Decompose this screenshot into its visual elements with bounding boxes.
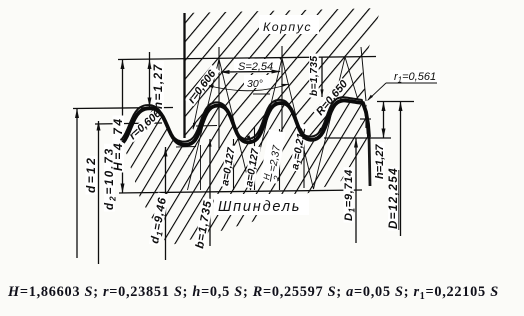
svg-text:d=12: d=12	[84, 156, 98, 193]
svg-text:Шпиндель: Шпиндель	[218, 199, 301, 215]
b=1,735 top label	[309, 54, 320, 98]
centerline of V at x=219	[218, 47, 220, 150]
bottom apex line	[119, 190, 362, 193]
h=1,27 right label	[374, 142, 386, 180]
svg-text:D1=9,714: D1=9,714	[343, 169, 357, 221]
d1=9,46 label	[149, 193, 171, 247]
right root extension line	[324, 137, 391, 139]
h=1,27 left label	[153, 61, 165, 111]
svg-text:S=2,54: S=2,54	[238, 61, 273, 73]
dimension D=12,254 line	[400, 102, 402, 237]
leader for R=0,650	[318, 118, 330, 133]
white patch r=0,606 crest	[126, 107, 164, 143]
dimension H=4,74 line	[122, 60, 124, 194]
d level extension line	[73, 108, 173, 109]
H=4,74 label	[111, 116, 125, 173]
30 degree arc with arrows	[206, 84, 289, 91]
d2=10,73 label	[104, 144, 118, 212]
extension line far	[303, 124, 305, 188]
D label underline	[398, 170, 400, 230]
r1=0,561 label	[390, 70, 440, 83]
left small extension line	[200, 145, 202, 190]
svg-text:30°: 30°	[247, 78, 263, 90]
svg-text:H=4,74: H=4,74	[111, 116, 125, 171]
a=0,127 label second	[243, 145, 262, 189]
extension line a1	[279, 129, 281, 190]
top apex line	[118, 57, 376, 60]
dimension d2=10,73 line	[98, 121, 100, 264]
a=0,127 label first	[219, 144, 238, 188]
dimension d1=9,46 line	[165, 147, 167, 260]
svg-text:H=1,86603 S; r=0,23851 S; h=0,: H=1,86603 S; r=0,23851 S; h=0,5 S; R=0,2…	[7, 284, 499, 302]
dimension b=1,735 bottom line	[209, 139, 211, 246]
dimension d=12 line	[76, 109, 78, 259]
D1=9,714 label	[343, 167, 357, 222]
extension line a first	[233, 139, 235, 190]
thread profile housing line (upper)	[122, 97, 368, 141]
b=1,735 top line	[321, 57, 323, 97]
svg-text:b=1,735: b=1,735	[309, 56, 320, 96]
H/2=2,37 fraction label	[260, 130, 290, 185]
housing hatched section (Корпус)	[183, 8, 381, 143]
pitch level tick at flank	[196, 125, 217, 128]
R=0,650 label	[314, 77, 351, 117]
housing left edge line	[183, 13, 185, 138]
dimension h=1,27 left line	[149, 52, 151, 107]
dimension h=1,27 right line	[383, 102, 385, 139]
dimension D1=9,714 line	[355, 138, 357, 243]
theoretical sharp V profile (thin zigzag)	[188, 57, 359, 190]
extension line groove center	[254, 127, 256, 190]
r1 center mark	[360, 118, 371, 120]
white patch for Шпиндель label	[214, 194, 309, 215]
right crest-top extension line	[377, 101, 414, 103]
right end wall of spindle thread	[369, 136, 370, 186]
svg-text:Корпус: Корпус	[263, 20, 312, 34]
r1 leader	[368, 83, 386, 100]
D=12,254 label	[388, 167, 400, 231]
S=2,54 dimension line with arrows	[221, 71, 280, 74]
white patch for Корпус label	[259, 15, 319, 34]
spindle hatched section (Шпиндель)	[123, 102, 369, 247]
white patch for 30 deg label	[244, 75, 270, 88]
r1 underline	[386, 82, 437, 84]
white patch R=0,650	[313, 78, 349, 118]
centerline of V at x=282	[281, 46, 283, 148]
d2 level extension line	[95, 123, 162, 124]
svg-text:h=1,27: h=1,27	[153, 63, 165, 109]
b=1,735 bottom label	[194, 198, 215, 251]
centerline of last crest	[361, 47, 366, 101]
r=0,606 label in housing	[185, 65, 221, 107]
thread profile spindle line (main thick)	[123, 101, 369, 145]
leader for housing r=0,606	[193, 90, 201, 129]
root level tick at first root	[176, 146, 196, 149]
r=0,606 label on first crest	[127, 107, 164, 142]
groove width tick	[253, 93, 270, 95]
a1=0,212 label	[289, 123, 311, 172]
svg-text:D=12,254: D=12,254	[388, 167, 400, 229]
white patch for S dimension label	[234, 59, 280, 73]
svg-text:h=1,27: h=1,27	[374, 144, 386, 179]
d=12 label	[84, 156, 98, 195]
